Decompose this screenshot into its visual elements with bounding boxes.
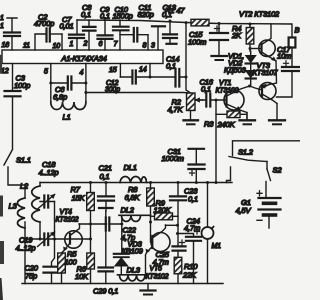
inductor L2 [20,182,42,241]
resistor R8 6.8K [125,181,155,206]
svg-text:0,1: 0,1 [100,172,110,181]
switch S1.2 [227,141,301,183]
wire pin 14 down [149,64,152,79]
pin 14 label [139,67,147,74]
pin 6 label [99,41,103,48]
capacitor C24 4.7m electrolytic [176,217,201,284]
capacitor C20 75p [25,264,60,284]
svg-text:VT1: VT1 [219,80,232,87]
inductor DL3 [118,265,146,281]
diode VD2 KD503 [224,59,256,87]
svg-text:КТ3102: КТ3102 [56,217,79,224]
resistor R7 15K [71,181,95,211]
wire pin 8 [147,35,149,50]
pin 1 label [70,41,74,48]
svg-text:15: 15 [109,67,117,74]
svg-text:4700р: 4700р [34,19,54,28]
trimmer capacitor C18 4..12p [38,160,59,209]
svg-text:L1: L1 [63,113,71,122]
svg-text:1500р: 1500р [113,11,133,20]
svg-text:10K: 10K [75,272,89,281]
wire pin 5 down [49,64,52,103]
svg-text:0,1: 0,1 [81,10,91,19]
capacitor C2 4700p [34,13,62,42]
svg-text:DL3: DL3 [127,265,141,274]
wire VT5 emitter to DL3 [145,256,147,275]
wire pin 12 down [12,64,14,92]
capacitor C17 10m electrolytic [277,45,301,97]
trimmer capacitor C19 4..12p [16,232,55,253]
svg-text:4,7m: 4,7m [184,224,200,233]
microphone M1 [202,181,222,284]
resistor R9 120K [151,199,179,220]
capacitor C16 0.1 [197,78,214,107]
pin 10 label [53,43,61,50]
capacitor C23 0.1 [170,181,198,225]
svg-text:100m: 100m [188,38,206,47]
wire bottom ground bus [22,283,223,285]
capacitor C6 6.8p [51,77,86,102]
wire lower supply bus [40,182,232,184]
inductor DL1 [120,163,147,183]
pin 7 label [114,41,119,48]
ground under R2 [184,111,199,125]
pin 3 label [151,43,155,50]
pin 2 label [83,41,88,48]
wire R8 to VT5 base [149,206,152,242]
svg-text:1: 1 [70,41,74,48]
capacitor C9 0.1 on pin 6 [98,5,113,50]
capacitor C11 820p [120,3,154,42]
transistor VT3 KT3107 [250,61,279,104]
svg-text:4,7m: 4,7m [153,258,169,267]
svg-text:S1.1: S1.1 [16,156,31,165]
svg-text:75р: 75р [25,272,37,281]
svg-text:10m: 10m [277,52,291,61]
transistor VT5 KT3102 [146,225,171,280]
svg-text:0,1: 0,1 [188,194,198,203]
earphone B at right edge [289,24,300,48]
svg-text:120K: 120K [154,206,172,215]
wire pin 10 up [61,34,63,50]
svg-text:0,1: 0,1 [166,61,176,70]
svg-text:1: 1 [0,23,4,30]
svg-text:4..12р: 4..12р [39,168,59,177]
wire VT1 base node down to lower bus [215,99,218,185]
svg-text:0,01: 0,01 [60,22,74,31]
transistor VT1 KT3102 [211,80,251,113]
svg-text:8: 8 [143,43,147,50]
capacitor C14 0.1 [150,55,186,87]
pin 15 label [109,67,117,74]
battery G1 4.5V [236,191,281,228]
svg-text:6: 6 [99,41,103,48]
diode VD1 [228,51,256,64]
wire pin 3 with top bar [152,26,165,50]
svg-text:100р: 100р [14,81,30,90]
capacitor C1 (cut off at left edge) [0,15,20,50]
svg-text:В: В [295,26,300,35]
capacitor C8 0.1 on pin 2 [81,3,96,50]
pin 5 label [44,69,48,76]
capacitor C29 0.1 [93,211,118,296]
capacitor C25 4.7m electrolytic [153,225,186,267]
svg-text:КТ3102: КТ3102 [216,88,239,95]
svg-text:C29 0,1: C29 0,1 [93,287,118,296]
svg-text:M1: M1 [212,243,222,250]
svg-text:2: 2 [83,41,88,48]
pin 16 label [2,42,10,49]
svg-text:6,8K: 6,8K [125,193,141,202]
node junction at R2 feed [185,21,188,24]
wire pin 15 down [119,64,121,78]
transistor VT4 KT3102 [48,209,90,253]
svg-text:4,7K: 4,7K [168,105,184,114]
resistor R10 22K [174,257,198,283]
pin 4 label [80,70,84,77]
svg-text:820р: 820р [138,10,154,19]
svg-text:3: 3 [151,43,155,50]
svg-text:S2: S2 [273,166,283,175]
capacitor C21 0.1 [98,164,114,212]
svg-text:VT4: VT4 [60,209,73,216]
svg-text:1000m: 1000m [162,154,184,163]
resistor R4 2K [231,23,254,52]
ground under C15 [212,56,228,60]
ground under VT3 [269,104,285,125]
capacitor C31 1000m electrolytic [162,147,205,184]
wire VT2 emitter down to VT3 emitter [269,61,277,85]
svg-text:DL1: DL1 [124,163,137,172]
svg-text:22K: 22K [182,270,197,279]
left edge scan artifacts [1,56,2,262]
svg-text:L3: L3 [9,202,18,211]
resistor R3 240K [204,111,247,129]
ground on bottom bus [141,284,156,295]
svg-text:R1 47: R1 47 [165,6,185,15]
inductor L1 [51,102,86,122]
svg-text:4,5V: 4,5V [236,206,252,215]
svg-text:15K: 15K [72,194,86,203]
capacitor C22 4.7p [79,218,137,242]
inductor L3 [9,185,27,284]
svg-text:VT2 КТ3102: VT2 КТ3102 [239,9,280,18]
wire VT5 collector rail [166,224,180,227]
pin 12 label [1,68,9,75]
wire R7 to R6 column [89,211,92,254]
svg-text:КВ109: КВ109 [122,247,144,256]
pin 8 label [143,43,147,50]
svg-text:240K: 240K [217,120,236,129]
transistor VT2 KT3102 label [239,9,280,18]
svg-text:2K: 2K [231,31,242,40]
capacitor C10 1500p on pin 7 [113,5,133,50]
svg-text:DL2: DL2 [121,206,135,215]
capacitor C7 0.01 on pin 1 [60,15,85,50]
resistor R2 4.7K potentiometer [168,93,203,114]
svg-text:5: 5 [44,69,48,76]
svg-text:4..12р: 4..12р [16,244,36,253]
switch S1.1 [4,150,31,186]
capacitor C13 0.1 [162,3,177,44]
svg-text:КД503: КД503 [224,65,246,74]
pin 11 label [23,43,30,50]
varicap VD3 KV109 [114,240,144,275]
switch S2 [266,162,282,199]
wire pin 4 to R2 [86,92,191,95]
svg-text:14: 14 [139,67,147,74]
svg-text:1: 1 [0,15,4,22]
capacitor C15 100m electrolytic [188,22,228,55]
svg-text:0,1: 0,1 [100,11,110,20]
svg-text:16: 16 [2,42,10,49]
resistor R5 100 [58,250,78,284]
wire top supply bus [77,20,291,24]
wire pin 11 up [35,34,46,50]
wire bus to R2 [185,23,191,93]
ground under VT1 [240,113,256,125]
resistor R6 10K [75,253,94,284]
wire pin 4 down [84,64,87,103]
svg-text:КТ3102: КТ3102 [146,273,169,280]
wire C18/C19 column [52,202,57,267]
resistor R1 47 [165,6,209,26]
svg-text:10: 10 [53,43,61,50]
svg-text:0,1: 0,1 [201,84,211,93]
wire DL2 left column to VD3 [120,215,123,253]
svg-text:КТ3107: КТ3107 [253,68,279,77]
svg-text:S1.2: S1.2 [238,148,254,157]
capacitor C3 100p [5,74,31,149]
svg-text:VT5: VT5 [150,266,163,273]
svg-text:4: 4 [80,70,84,77]
inductor DL2 [119,206,151,222]
op-amp U1 A1-K174XA34 IC box [2,50,163,64]
capacitor C12 300p [105,71,150,94]
transistor VT2 KT3102 [249,24,277,61]
svg-text:12: 12 [1,68,9,75]
svg-text:6,8р: 6,8р [53,93,67,102]
svg-text:11: 11 [23,43,30,50]
svg-text:А1-К174ХА34: А1-К174ХА34 [60,54,106,63]
svg-text:R3: R3 [204,120,214,129]
